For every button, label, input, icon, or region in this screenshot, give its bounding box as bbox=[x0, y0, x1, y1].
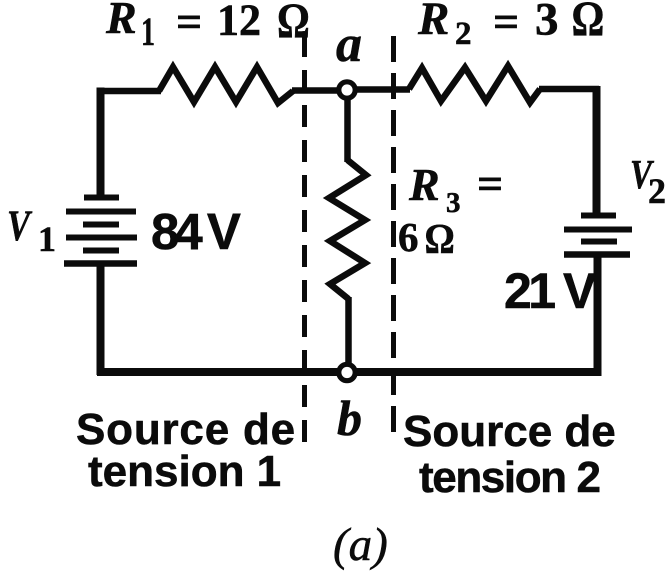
resistor R1 bbox=[159, 67, 293, 103]
svg-text:1: 1 bbox=[38, 219, 56, 259]
battery V1 plate long bbox=[66, 209, 136, 215]
dashed boundary line 2 bbox=[391, 36, 396, 441]
wire from V2 bottom down to bottom-right corner bbox=[594, 254, 602, 376]
node a bbox=[339, 82, 355, 98]
wire from node a down to R3 bbox=[344, 98, 351, 162]
svg-text:Source de: Source de bbox=[403, 407, 616, 456]
wire left branch vertical from corner up to V1 bottom bbox=[97, 264, 105, 375]
battery V1 plate short bbox=[83, 222, 119, 228]
svg-text:Ω: Ω bbox=[277, 0, 310, 48]
svg-text:V: V bbox=[7, 202, 33, 249]
wire from R1 to node a bbox=[292, 87, 340, 94]
wire bottom rail right from corner to node b bbox=[355, 368, 601, 376]
svg-text:84 V: 84 V bbox=[151, 203, 241, 260]
svg-text:a: a bbox=[336, 16, 362, 73]
svg-text:1: 1 bbox=[141, 10, 155, 54]
battery V2 plate long bottom bbox=[564, 251, 630, 258]
svg-text:tension 1: tension 1 bbox=[88, 447, 281, 496]
battery V1 plate long bottom bbox=[64, 260, 137, 267]
label V1 bbox=[7, 202, 56, 259]
label Source de tension 2 bbox=[403, 407, 616, 502]
label R1 = 12 ohm bbox=[105, 0, 310, 54]
label R2 = 3 ohm bbox=[417, 0, 604, 52]
svg-text:=: = bbox=[477, 158, 503, 209]
svg-text:Ω: Ω bbox=[572, 0, 605, 46]
battery V1 plate short bbox=[83, 248, 119, 254]
wire left branch vertical from V1 top up to corner bbox=[97, 88, 105, 200]
resistor R2 bbox=[409, 66, 540, 103]
node b bbox=[339, 364, 355, 380]
svg-text:(a): (a) bbox=[333, 519, 388, 571]
battery V2 plate long bbox=[564, 227, 632, 233]
svg-text:tension 2: tension 2 bbox=[419, 453, 600, 502]
wire bottom rail left from node b to bottom-left corner bbox=[97, 368, 339, 376]
svg-text:3: 3 bbox=[535, 0, 559, 46]
battery V1 plate long bbox=[66, 235, 137, 241]
battery V1 plate short top bbox=[84, 195, 119, 201]
wire from R2 right to top-right corner bbox=[539, 86, 599, 93]
svg-text:R: R bbox=[105, 0, 137, 43]
label V2 bbox=[630, 153, 666, 211]
resistor R3 bbox=[329, 160, 366, 299]
label Source de tension 1 bbox=[76, 405, 296, 496]
svg-text:=: = bbox=[176, 0, 202, 47]
battery V2 plate short bbox=[581, 239, 617, 245]
wire from node a to R2 bbox=[354, 86, 410, 93]
svg-text:2: 2 bbox=[455, 16, 472, 52]
svg-text:6: 6 bbox=[398, 214, 419, 260]
wire top left horizontal corner to R1 bbox=[97, 88, 161, 95]
battery V2 plate short top bbox=[581, 213, 616, 219]
svg-text:12: 12 bbox=[217, 0, 261, 45]
wire from R3 down to node b bbox=[345, 297, 352, 365]
label R3 = 6 ohm bbox=[398, 158, 503, 262]
svg-text:Ω: Ω bbox=[425, 215, 455, 262]
svg-text:21 V: 21 V bbox=[504, 263, 597, 319]
svg-text:R: R bbox=[417, 0, 449, 45]
svg-text:2: 2 bbox=[648, 171, 666, 211]
svg-text:R: R bbox=[408, 159, 440, 210]
svg-text:=: = bbox=[493, 0, 519, 47]
wire right branch vertical down to V2 top bbox=[593, 86, 601, 216]
svg-text:b: b bbox=[337, 390, 362, 446]
dashed boundary line 1 bbox=[302, 35, 307, 443]
